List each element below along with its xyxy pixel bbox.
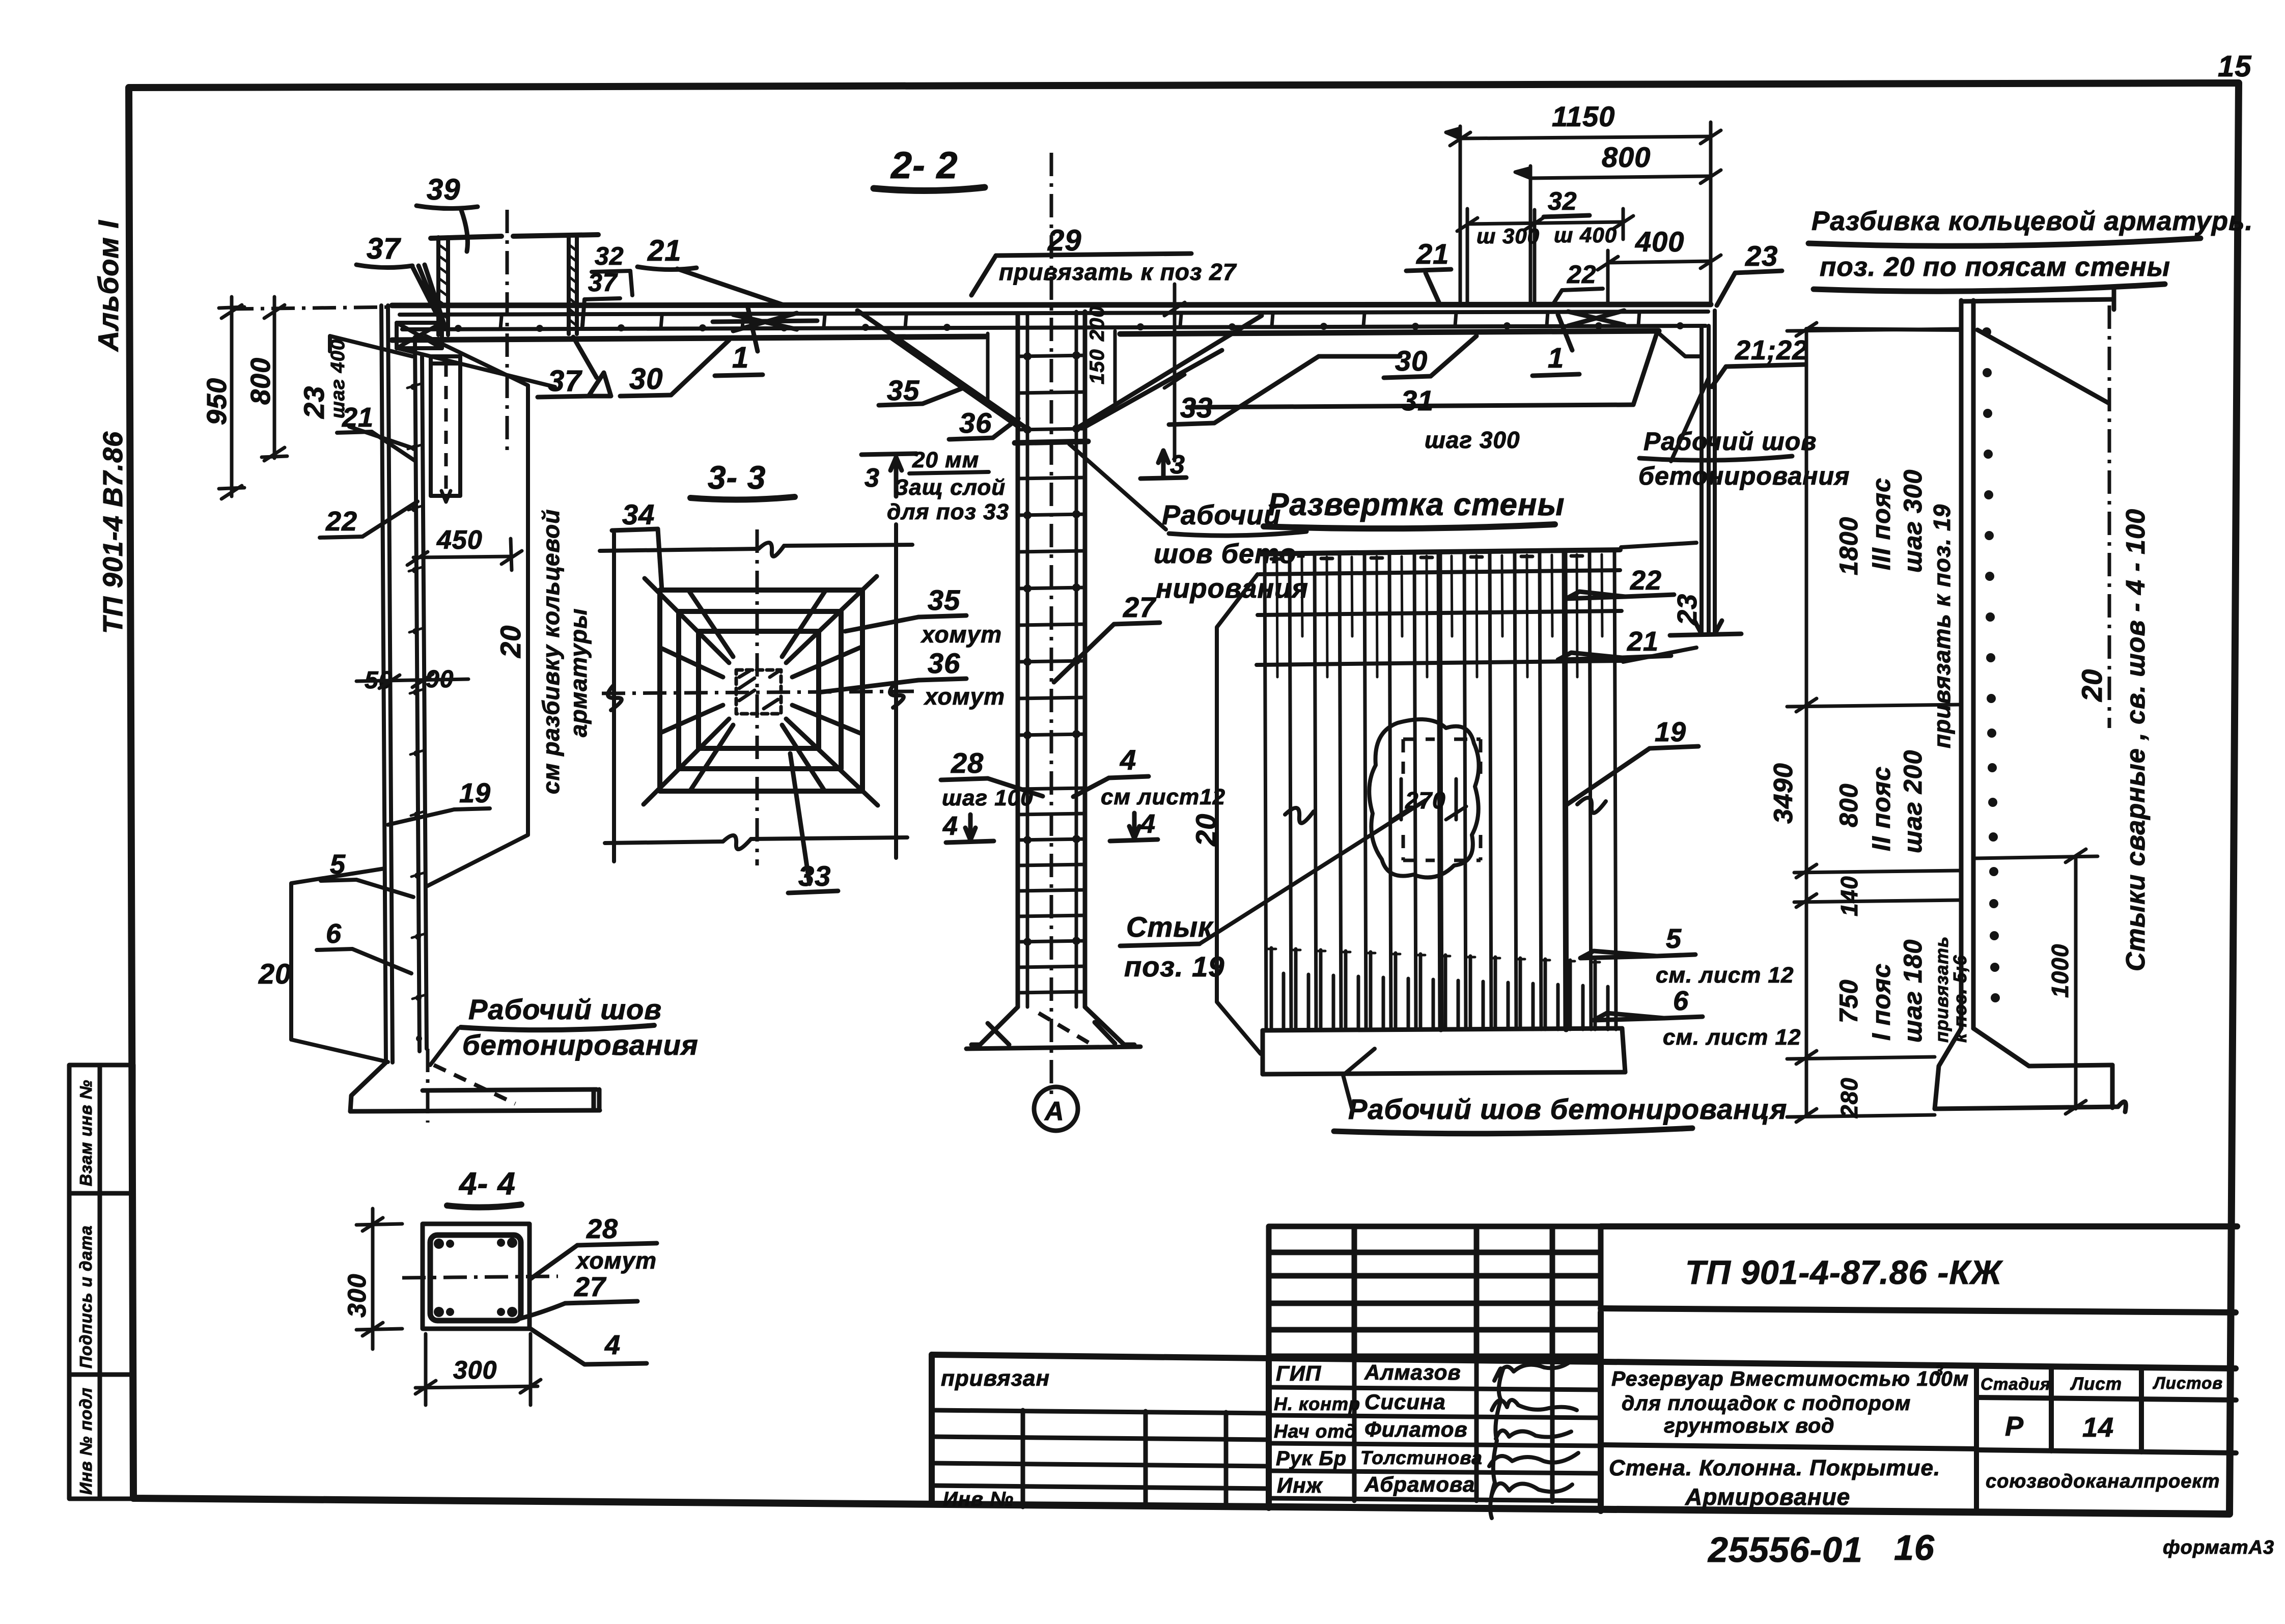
svg-text:37: 37	[367, 232, 401, 265]
svg-text:4: 4	[1120, 744, 1136, 776]
svg-text:800: 800	[1834, 783, 1863, 827]
rebar dots column	[1982, 327, 2000, 1002]
foundation profile right diagram	[1935, 1028, 2126, 1112]
axis mark circle A	[1034, 1087, 1078, 1131]
foundation dash diagonals	[1039, 1013, 1089, 1043]
svg-text:Защ слой: Защ слой	[894, 475, 1006, 500]
svg-text:6: 6	[1673, 986, 1689, 1016]
inner hoop square	[430, 1235, 521, 1321]
svg-text:Сисина: Сисина	[1364, 1390, 1446, 1414]
break marks on bars	[1285, 798, 1606, 823]
svg-text:32: 32	[1548, 187, 1577, 215]
svg-text:см разбивку кольцевой: см разбивку кольцевой	[538, 509, 564, 794]
svg-text:союзводоканалпроект: союзводоканалпроект	[1986, 1471, 2220, 1492]
svg-text:поз. 20 по поясам стены: поз. 20 по поясам стены	[1820, 252, 2170, 282]
dim 1150	[1446, 122, 1721, 305]
radial rays	[644, 576, 878, 805]
svg-text:ГИП: ГИП	[1276, 1361, 1321, 1385]
svg-text:III пояс: III пояс	[1867, 478, 1896, 570]
svg-text:22: 22	[1567, 260, 1597, 289]
slab bar splice X mark left	[713, 313, 817, 331]
bottom dowel bars	[1271, 948, 1608, 1029]
svg-text:привязать к поз. 19: привязать к поз. 19	[1929, 504, 1955, 748]
svg-text:800: 800	[1602, 141, 1651, 173]
svg-text:грунтовых вод: грунтовых вод	[1664, 1414, 1835, 1437]
signatures squiggles	[1489, 1360, 1578, 1518]
svg-text:20: 20	[258, 958, 291, 990]
svg-text:1: 1	[1548, 342, 1564, 374]
svg-text:хомут: хомут	[575, 1247, 657, 1274]
svg-text:бетонирования: бетонирования	[462, 1029, 699, 1061]
svg-text:21: 21	[342, 402, 374, 433]
svg-text:6: 6	[326, 918, 342, 949]
svg-text:Резервуар Вместимостью 100м: Резервуар Вместимостью 100м	[1611, 1367, 1969, 1390]
svg-text:14: 14	[2082, 1412, 2114, 1443]
svg-text:Подпись и дата: Подпись и дата	[76, 1225, 95, 1369]
svg-text:20: 20	[1190, 814, 1222, 847]
outer square	[423, 1224, 530, 1329]
svg-text:20: 20	[2076, 669, 2108, 702]
svg-text:23: 23	[1672, 594, 1703, 626]
svg-text:3- 3: 3- 3	[708, 459, 766, 496]
svg-text:I пояс: I пояс	[1867, 963, 1896, 1041]
curb top cap lines	[431, 235, 598, 238]
title block main outline	[932, 1312, 2236, 1511]
svg-text:привязан: привязан	[941, 1366, 1050, 1391]
svg-text:950: 950	[202, 378, 232, 425]
curb left hatched strip	[438, 237, 448, 335]
boundary right line	[894, 524, 898, 858]
svg-text:поз. 19: поз. 19	[1124, 950, 1224, 983]
dim 300 left	[356, 1209, 402, 1349]
opening blob outline	[1369, 719, 1479, 878]
svg-text:4: 4	[604, 1330, 621, 1360]
svg-text:ТП 901-4-87.86 -КЖ: ТП 901-4-87.86 -КЖ	[1685, 1253, 2003, 1291]
slab bottom line	[392, 331, 1659, 340]
svg-text:27: 27	[1123, 591, 1157, 623]
construction joint line in column	[1015, 441, 1088, 443]
panel top edge	[1260, 550, 1620, 554]
dim 300 bottom	[415, 1334, 541, 1405]
svg-text:1800: 1800	[1834, 517, 1863, 575]
svg-text:Разбивка кольцевой арматурь.: Разбивка кольцевой арматурь.	[1812, 206, 2253, 236]
svg-text:форматА3: форматА3	[2163, 1537, 2274, 1558]
right wall bottom tick	[1670, 621, 1741, 635]
slab bar splice X mark right	[1568, 311, 1624, 326]
column inner bars	[1027, 312, 1076, 1007]
svg-text:нирования: нирования	[1156, 573, 1308, 604]
svg-text:ш 400: ш 400	[1554, 223, 1617, 247]
svg-text:5: 5	[1666, 923, 1682, 954]
svg-text:Альбом I: Альбом I	[92, 220, 124, 352]
right wall below slab	[1702, 311, 1715, 634]
svg-text:21: 21	[647, 234, 682, 267]
dim 400	[1598, 250, 1721, 305]
svg-text:3: 3	[1935, 1362, 1944, 1379]
svg-text:Стык: Стык	[1126, 911, 1214, 943]
section mark 4 right	[1110, 813, 1158, 841]
svg-text:35: 35	[928, 584, 960, 616]
svg-text:шаг 200: шаг 200	[1899, 750, 1927, 853]
svg-text:22: 22	[325, 506, 357, 537]
column outer faces	[1018, 312, 1085, 1007]
title block doc number cell	[1601, 1226, 2237, 1312]
thick bars 19	[1439, 552, 1566, 1029]
stage/sheet columns	[1976, 1366, 2236, 1510]
middle square	[679, 611, 841, 769]
svg-text:200: 200	[1086, 305, 1108, 342]
svg-text:Инж: Инж	[1277, 1473, 1323, 1497]
svg-text:15: 15	[2218, 50, 2252, 83]
svg-text:4- 4: 4- 4	[458, 1166, 516, 1201]
svg-text:Инв №: Инв №	[943, 1488, 1014, 1510]
wall axis dash-dot at top	[230, 307, 392, 309]
svg-text:750: 750	[1834, 979, 1863, 1023]
bottom slab of development	[1263, 1028, 1625, 1074]
svg-text:II пояс: II пояс	[1867, 766, 1896, 851]
capital stirrup verticals	[988, 331, 1115, 402]
svg-text:3490: 3490	[1769, 763, 1798, 824]
top haunch diagonal	[1977, 330, 2109, 403]
svg-text:29: 29	[1047, 224, 1082, 257]
dim 950 vertical	[219, 297, 244, 499]
main dim line	[1787, 323, 1960, 1122]
column stirrup dots	[1023, 351, 1080, 946]
svg-text:150: 150	[1086, 349, 1108, 384]
lower chord line of thickened slab	[1187, 332, 1657, 407]
svg-text:Рабочий шов: Рабочий шов	[468, 993, 662, 1025]
svg-text:Стадия: Стадия	[1981, 1375, 2051, 1393]
slab rebar dots	[455, 322, 1684, 332]
svg-text:1: 1	[732, 341, 749, 374]
svg-text:4: 4	[1140, 809, 1156, 839]
column centerline	[1050, 153, 1053, 1097]
dim 1000	[1975, 849, 2098, 1114]
svg-text:400: 400	[1635, 226, 1684, 258]
svg-text:см лист12: см лист12	[1101, 785, 1225, 809]
svg-text:Р: Р	[2005, 1411, 2024, 1442]
curb centerline	[506, 210, 509, 454]
svg-text:Инв № подл: Инв № подл	[76, 1387, 95, 1495]
pilaster below corner	[431, 356, 460, 496]
svg-text:37: 37	[548, 365, 582, 398]
dowel bar heads	[1267, 949, 1600, 962]
svg-text:2- 2: 2- 2	[890, 144, 958, 186]
svg-text:300: 300	[343, 1274, 371, 1318]
svg-text:для площадок с подпором: для площадок с подпором	[1622, 1391, 1911, 1415]
wall top line	[1961, 289, 2114, 310]
corner bar dots	[434, 1238, 517, 1317]
svg-text:30: 30	[1395, 345, 1428, 377]
svg-text:бетонирования: бетонирования	[1638, 462, 1850, 490]
svg-text:35: 35	[887, 374, 919, 406]
svg-text:30: 30	[629, 362, 663, 396]
title block upper small table	[1269, 1226, 1601, 1356]
svg-text:22: 22	[1630, 565, 1662, 596]
dim 800 top	[1515, 166, 1721, 305]
svg-text:см. лист 12: см. лист 12	[1663, 1025, 1801, 1050]
svg-text:Нач отд: Нач отд	[1274, 1421, 1357, 1442]
column capital right diagonals	[1079, 316, 1262, 427]
svg-text:Стыки сварные , св. шов - 4: Стыки сварные , св. шов - 4 - 100	[2121, 509, 2151, 971]
svg-text:300: 300	[453, 1356, 497, 1384]
svg-text:20: 20	[494, 625, 526, 658]
svg-text:Толстинова: Толстинова	[1360, 1447, 1483, 1468]
wall corner X-cross box	[397, 323, 555, 387]
svg-text:21;22: 21;22	[1735, 335, 1808, 366]
svg-text:32: 32	[595, 242, 624, 270]
slab mid rebar line with dots	[402, 326, 1706, 329]
svg-text:Взам инв №: Взам инв №	[76, 1079, 95, 1186]
svg-text:450: 450	[436, 525, 483, 555]
svg-text:20 мм: 20 мм	[912, 447, 979, 472]
outer square	[660, 590, 862, 791]
bracket 20 see ring reinf	[426, 336, 528, 887]
svg-text:3: 3	[1170, 450, 1185, 480]
svg-text:39: 39	[427, 173, 461, 206]
wall inner face tick marks	[407, 384, 426, 999]
svg-text:Рабочий шов бетонированця: Рабочий шов бетонированця	[1348, 1093, 1787, 1125]
svg-text:16: 16	[1894, 1528, 1935, 1567]
boundary bottom line	[605, 837, 907, 843]
svg-text:Рук Бр: Рук Бр	[1276, 1447, 1347, 1470]
column stirrup rungs	[1018, 355, 1085, 993]
wall axis dash-dot	[2108, 305, 2111, 728]
slab top chord line	[392, 303, 1711, 305]
svg-text:28: 28	[586, 1214, 618, 1244]
centerline horizontal 4-4	[402, 1276, 558, 1278]
column foundation flare	[966, 1007, 1140, 1049]
svg-text:21: 21	[1416, 238, 1449, 270]
slab short tick bars	[500, 312, 1639, 328]
svg-text:Алмазов: Алмазов	[1364, 1360, 1461, 1384]
svg-text:шаг 300: шаг 300	[1899, 469, 1927, 573]
center column hatch	[736, 670, 781, 714]
centerline horizontal	[602, 691, 914, 693]
svg-text:привязать: привязать	[1931, 936, 1952, 1043]
bracket 23 development	[1621, 543, 1696, 662]
svg-text:хомут: хомут	[923, 683, 1005, 710]
svg-text:ТП 901-4 В7.86: ТП 901-4 В7.86	[98, 431, 128, 634]
svg-text:Абрамова: Абрамова	[1364, 1472, 1475, 1496]
dim 800 vertical	[262, 297, 287, 461]
break marks	[608, 543, 904, 849]
svg-text:Н. контр: Н. контр	[1274, 1393, 1360, 1414]
left bracket of development	[1217, 574, 1261, 1054]
right haunch diagonal	[1657, 332, 1702, 356]
svg-text:Развертка стены: Развертка стены	[1268, 487, 1565, 522]
left wall outer face double line	[381, 305, 393, 1062]
svg-text:арматуры: арматуры	[565, 608, 592, 737]
svg-text:шаг 180: шаг 180	[1899, 939, 1927, 1043]
svg-text:для поз 33: для поз 33	[887, 499, 1009, 524]
left wall inner face double line	[415, 337, 427, 1051]
names table grid	[1269, 1356, 1601, 1502]
svg-text:А: А	[1044, 1097, 1065, 1126]
svg-text:25556-01: 25556-01	[1707, 1530, 1863, 1570]
left stamp boxes	[69, 1065, 133, 1499]
main vertical bars	[1265, 551, 1616, 1029]
svg-text:23: 23	[298, 386, 330, 419]
wall inner rebar dots	[410, 384, 422, 1042]
svg-text:4: 4	[942, 811, 958, 841]
wall profile verticals	[1961, 300, 1973, 1028]
centerline vertical	[756, 529, 759, 865]
svg-text:28: 28	[951, 747, 984, 779]
svg-text:36: 36	[928, 647, 960, 679]
svg-text:34: 34	[622, 498, 655, 530]
dim 450	[407, 539, 522, 570]
svg-text:Рабочий шов: Рабочий шов	[1643, 427, 1817, 456]
svg-text:1000: 1000	[2047, 944, 2073, 998]
svg-text:шаг 100: шаг 100	[942, 786, 1034, 810]
svg-text:Армирование: Армирование	[1685, 1483, 1850, 1510]
svg-text:23: 23	[1745, 240, 1778, 272]
svg-text:1150: 1150	[1552, 100, 1615, 132]
svg-text:привязать к поз 27: привязать к поз 27	[999, 259, 1237, 285]
boundary left line	[612, 534, 616, 861]
svg-text:36: 36	[959, 407, 992, 439]
left edge zigzag of big bracket to wall top	[1806, 329, 1961, 330]
svg-text:31: 31	[1401, 384, 1434, 416]
svg-text:27: 27	[574, 1272, 607, 1302]
svg-text:шаг 300: шаг 300	[1425, 427, 1520, 453]
svg-text:Листов: Листов	[2153, 1374, 2223, 1392]
opening dashed edges	[1403, 739, 1481, 860]
svg-text:см. лист 12: см. лист 12	[1656, 963, 1794, 988]
panel band lines	[1257, 570, 1623, 665]
section mark 4 left	[946, 815, 994, 843]
slab second line	[400, 312, 1708, 315]
svg-text:ш 300: ш 300	[1476, 224, 1540, 248]
svg-text:Филатов: Филатов	[1364, 1417, 1468, 1441]
svg-text:Стена. Колонна. Покрытие.: Стена. Колонна. Покрытие.	[1609, 1455, 1940, 1480]
svg-text:140: 140	[1836, 876, 1862, 916]
svg-text:21: 21	[1627, 626, 1659, 657]
svg-text:Лист: Лист	[2070, 1374, 2122, 1394]
inner square	[699, 631, 819, 748]
section mark 3 right	[1140, 451, 1186, 479]
wall base	[350, 1062, 600, 1111]
top band bar heads	[1271, 556, 1582, 559]
curb right hatched strip	[569, 237, 577, 334]
section mark 3 left	[861, 454, 916, 496]
svg-text:3: 3	[865, 463, 880, 493]
svg-text:хомут: хомут	[920, 621, 1002, 648]
svg-text:19: 19	[459, 778, 491, 808]
svg-text:800: 800	[245, 357, 276, 405]
svg-text:19: 19	[1655, 717, 1686, 747]
top band short bars	[1277, 554, 1602, 677]
svg-text:33: 33	[798, 860, 831, 892]
column capital left diagonals	[857, 311, 1024, 427]
boundary top line	[600, 545, 912, 551]
svg-text:280: 280	[1836, 1077, 1862, 1118]
svg-text:37: 37	[588, 268, 618, 297]
